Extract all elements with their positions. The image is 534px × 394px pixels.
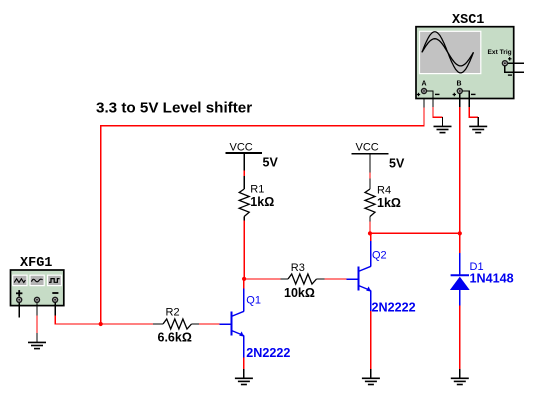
svg-text:R2: R2: [166, 307, 180, 319]
svg-text:6.6kΩ: 6.6kΩ: [158, 331, 192, 345]
VCC symbol (left): [226, 142, 262, 154]
scope channel A terminal: [417, 88, 440, 96]
XFG1 triangle-wave button: [13, 275, 27, 285]
resistor R3: [281, 274, 325, 284]
svg-text:B: B: [457, 81, 462, 88]
transistor Q2: [347, 240, 371, 311]
XFG1 minus sign: [52, 292, 58, 294]
wire R1 to node: [243, 221, 245, 279]
transistor Q1: [220, 288, 244, 358]
wire node to R3: [244, 278, 281, 280]
wire VCC to R4: [369, 154, 371, 190]
svg-text:10kΩ: 10kΩ: [284, 286, 315, 300]
ground (Q1 emitter): [235, 378, 253, 384]
svg-text:Ext Trig: Ext Trig: [488, 49, 512, 56]
svg-text:5V: 5V: [263, 156, 279, 170]
wire Q1 emitter to ground: [243, 357, 245, 378]
ground (XFG1): [28, 342, 46, 348]
svg-text:1kΩ: 1kΩ: [250, 195, 274, 209]
svg-text:1kΩ: 1kΩ: [377, 196, 401, 210]
wire Q2 collector to node: [370, 233, 372, 240]
XFG1 sine-wave button: [30, 275, 44, 285]
function generator XFG1 body: [11, 270, 64, 306]
node junction R4/Q2 collector: [368, 231, 372, 235]
wire Q2 emitter to ground: [370, 311, 372, 378]
Ext Trig minus line: [505, 66, 524, 75]
diode D1: [450, 275, 470, 305]
scope trace channel B (small sine): [422, 39, 474, 66]
XFG1 minus terminal: [52, 297, 58, 303]
XFG1 plus sign: [16, 290, 22, 296]
svg-text:Q2: Q2: [372, 250, 387, 262]
svg-text:R3: R3: [291, 262, 305, 274]
XFG1 square-wave button: [48, 275, 62, 285]
wire output node to D1 column: [370, 232, 460, 234]
wire top horizontal to scope channel A: [100, 94, 425, 126]
Ext Trig terminal: [502, 57, 512, 66]
svg-text:1N4148: 1N4148: [470, 272, 514, 286]
svg-text:XFG1: XFG1: [20, 256, 52, 271]
resistor R1: [239, 189, 249, 221]
wire R2 to Q1 base: [199, 323, 220, 325]
wire XFG1 plus stub: [18, 303, 20, 318]
wire VCC to R1: [243, 153, 245, 189]
ground (Q2 emitter): [362, 378, 380, 384]
ground (scope B): [469, 126, 487, 132]
svg-text:A: A: [422, 81, 427, 88]
ground (D1): [451, 378, 469, 384]
Ext Trig plus line: [508, 62, 524, 64]
svg-text:XSC1: XSC1: [452, 13, 484, 28]
svg-text:VCC: VCC: [356, 142, 379, 154]
node junction at XFG1 output: [99, 322, 103, 326]
wire D1 to ground: [459, 305, 461, 378]
wire scope B plus down to output node: [459, 94, 461, 234]
svg-text:R1: R1: [250, 184, 264, 196]
wire XFG1 common to ground: [36, 303, 38, 343]
XFG1 common terminal: [34, 297, 40, 303]
svg-text:5V: 5V: [389, 157, 405, 171]
svg-text:2N2222: 2N2222: [246, 346, 290, 360]
scope channel B terminal: [453, 88, 476, 96]
svg-text:VCC: VCC: [230, 142, 253, 154]
wire top-left vertical (XFG1 output up to scope A): [100, 126, 102, 324]
node junction R1/R3/Q1: [242, 277, 246, 281]
svg-text:3.3 to 5V Level shifter: 3.3 to 5V Level shifter: [96, 100, 252, 117]
wire node to D1: [459, 233, 461, 275]
resistor R2: [153, 319, 199, 329]
ground (scope A): [434, 126, 452, 132]
wire Q1 collector to node: [243, 279, 245, 289]
node junction at D1 column: [458, 231, 462, 235]
oscilloscope XSC1 body: [416, 27, 514, 99]
XFG1 plus terminal: [16, 297, 22, 303]
wire R4 to node: [369, 222, 371, 234]
resistor R4: [365, 189, 375, 222]
scope trace channel A (large sine): [422, 32, 474, 73]
wire scope B minus to ground: [463, 91, 479, 126]
wire R3 to Q2 base: [324, 278, 347, 280]
svg-text:Q1: Q1: [246, 295, 261, 307]
wire scope A minus to ground: [427, 91, 443, 126]
svg-text:R4: R4: [377, 185, 391, 197]
oscilloscope screen: [420, 31, 481, 73]
svg-text:2N2222: 2N2222: [372, 301, 416, 315]
wire XFG1 minus to node: [55, 303, 153, 325]
VCC symbol (right): [352, 142, 389, 154]
